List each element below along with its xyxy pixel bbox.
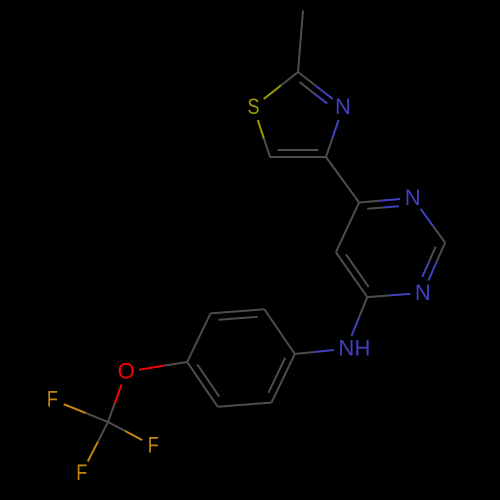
bond C-F3 bbox=[88, 422, 108, 461]
double bond C4=C5 pyrimidine bbox=[336, 252, 369, 297]
double bond C6=C1 phenyl bbox=[268, 354, 294, 403]
double bond C2=N3 thiazole bbox=[298, 72, 333, 104]
svg-text:N: N bbox=[335, 94, 351, 119]
double bond C2=C3 phenyl bbox=[211, 309, 265, 320]
svg-text:N: N bbox=[405, 185, 421, 210]
svg-text:N: N bbox=[415, 280, 431, 305]
bond C5-C6 pyrimidine bbox=[336, 203, 359, 253]
bond C2-S1 thiazole bbox=[264, 72, 298, 99]
bond C-F1 bbox=[64, 404, 108, 422]
bond S1-C5 thiazole bbox=[258, 120, 270, 157]
svg-text:O: O bbox=[118, 359, 135, 384]
bond thiazole C4 - pyrimidine C6 (biaryl link) bbox=[326, 157, 359, 203]
svg-text:F: F bbox=[76, 460, 87, 485]
svg-text:F: F bbox=[148, 433, 159, 458]
bond N3-C4 thiazole bbox=[326, 120, 339, 157]
bond C-F2 bbox=[108, 422, 142, 440]
svg-text:F: F bbox=[47, 387, 58, 412]
bond NH-C1 phenyl bbox=[295, 350, 334, 354]
double bond C4=C5 phenyl bbox=[187, 362, 219, 407]
bond C4(pyrimidine)-NH bbox=[352, 297, 368, 336]
svg-text:N: N bbox=[338, 336, 354, 361]
bond O-CF3 carbon bbox=[108, 385, 122, 422]
bond C3-C4 phenyl bbox=[187, 313, 210, 362]
bond C5-C6 phenyl bbox=[218, 403, 272, 407]
bond C4(phenyl)-O ether bbox=[139, 362, 187, 370]
bond N1-C2 pyrimidine bbox=[421, 209, 446, 243]
svg-text:H: H bbox=[354, 336, 370, 361]
bond C2-CH3 (methyl) bbox=[298, 11, 303, 73]
double bond C2=N3 pyrimidine bbox=[422, 243, 445, 281]
svg-text:S: S bbox=[248, 94, 260, 119]
double bond C6=N1 pyrimidine bbox=[359, 199, 400, 209]
bond N3-C4 pyrimidine bbox=[367, 294, 410, 297]
double bond C4=C5 thiazole bbox=[270, 150, 326, 157]
bond C1-C2 phenyl bbox=[264, 309, 294, 354]
